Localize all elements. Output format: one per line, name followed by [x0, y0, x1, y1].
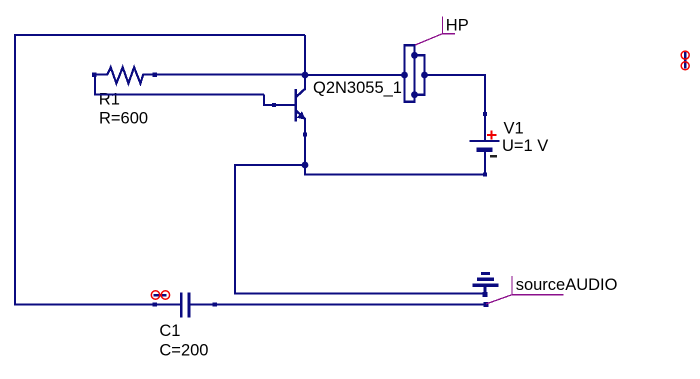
- label line HP: [415, 16, 455, 45]
- probe open node left red circle: [151, 291, 159, 299]
- wire collector node to resistor: [155, 73, 305, 75]
- ground symbol stem: [484, 287, 487, 294]
- wire bottom of battery horizontal: [304, 173, 485, 175]
- transistor Q1 base port square: [272, 103, 276, 107]
- wire left vertical: [14, 34, 16, 306]
- capacitor C1 left plate: [180, 292, 183, 317]
- unconnected part bottom red circle: [681, 62, 689, 70]
- wire bottom left horizontal: [14, 303, 180, 305]
- label line sourceAUDIO: [486, 276, 563, 304]
- wire ground horizontal: [234, 292, 485, 294]
- svg-text:C1: C1: [159, 322, 180, 340]
- node collector junction dot: [302, 72, 309, 79]
- resistor R1: [94, 67, 155, 83]
- unconnected part top red circle: [681, 51, 689, 59]
- ground symbol top bar: [481, 272, 490, 275]
- transistor Q1: [296, 89, 306, 122]
- battery V1 minus sign: [490, 155, 497, 157]
- speaker HP left rectangle: [405, 45, 415, 102]
- wire collector node to HP: [305, 74, 405, 76]
- battery V1 upper lead: [484, 74, 486, 141]
- battery V1 lower lead: [484, 152, 486, 176]
- svg-text:HP: HP: [446, 16, 469, 34]
- speaker HP right rectangle: [415, 55, 425, 94]
- probe open node right red circle: [161, 291, 169, 299]
- svg-text:U=1 V: U=1 V: [502, 137, 548, 155]
- svg-text:V1: V1: [504, 119, 524, 137]
- svg-text:sourceAUDIO: sourceAUDIO: [516, 276, 618, 294]
- speaker HP bottom node dot: [411, 91, 418, 98]
- capacitor C1 right plate: [187, 292, 190, 317]
- battery V1 top plate: [470, 140, 500, 142]
- wire top horizontal: [14, 34, 305, 36]
- ground symbol bottom bar: [473, 284, 499, 287]
- wire top right drop to collector node: [304, 35, 306, 75]
- transistor Q1 emitter arrow: [297, 111, 306, 120]
- speaker HP right node dot: [421, 72, 428, 79]
- resistor R1 left port square: [92, 73, 96, 77]
- wire to base: [263, 104, 296, 106]
- wire resistor left drop: [94, 75, 96, 96]
- speaker HP top node dot: [411, 52, 418, 59]
- wire emitter node to left: [235, 164, 305, 166]
- resistor R1 right port square: [153, 73, 157, 77]
- probe bar near C1: [154, 294, 167, 297]
- transistor Q1 emitter port square: [303, 132, 307, 136]
- ground symbol middle bar: [477, 278, 494, 281]
- svg-text:R1: R1: [99, 91, 120, 109]
- battery V1 bottom corner square: [483, 172, 487, 176]
- speaker HP left node dot: [401, 72, 408, 79]
- audio wire end square: [484, 302, 489, 307]
- transistor Q1 emitter lead: [304, 118, 306, 165]
- wire base horizontal upper: [94, 93, 264, 95]
- ground wire end square: [483, 292, 488, 297]
- node emitter junction dot: [302, 162, 309, 169]
- wire emitter node down: [304, 165, 306, 175]
- svg-text:C=200: C=200: [159, 342, 208, 360]
- svg-text:R=600: R=600: [99, 110, 148, 128]
- capacitor C1 right port square: [212, 302, 216, 306]
- wire mid-left vertical: [234, 164, 236, 294]
- wire HP to battery top: [425, 74, 487, 76]
- unconnected part bar far right: [684, 52, 687, 69]
- transistor Q1 collector lead: [304, 75, 306, 90]
- svg-text:Q2N3055_1: Q2N3055_1: [313, 79, 402, 97]
- battery V1 bottom plate: [477, 148, 493, 152]
- wire bottom right horizontal: [190, 303, 486, 305]
- battery V1 top port square: [483, 112, 487, 116]
- wire base step down: [263, 95, 265, 106]
- battery V1 plus sign: [487, 130, 496, 139]
- capacitor C1 left port square: [153, 302, 157, 306]
